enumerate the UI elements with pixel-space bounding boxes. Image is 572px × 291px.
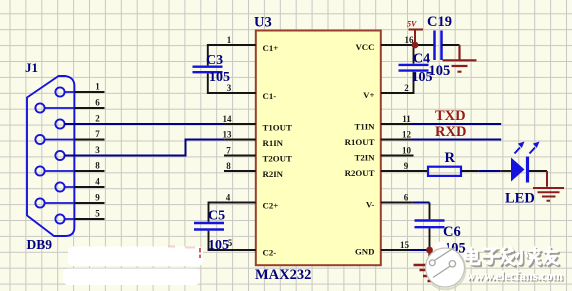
- svg-text:8: 8: [95, 161, 100, 171]
- ground near LED: [533, 171, 564, 201]
- pin 1 wire C1+: [208, 45, 256, 65]
- svg-text:12: 12: [402, 130, 412, 140]
- wire DB9 pin3 to U3 R1IN: [64, 140, 224, 156]
- svg-text:R2IN: R2IN: [263, 169, 284, 179]
- faint red remnants: [199, 248, 201, 258]
- svg-text:GND: GND: [355, 247, 375, 257]
- svg-text:LED: LED: [505, 191, 535, 207]
- pin 6 stub V-: [381, 202, 413, 204]
- svg-text:C6: C6: [443, 224, 461, 240]
- ground near C19: [443, 45, 477, 72]
- svg-text:T2IN: T2IN: [354, 153, 375, 163]
- ground earth-style near C6: [414, 250, 434, 281]
- svg-text:C5: C5: [208, 209, 225, 224]
- pin 2 wire V+: [381, 72, 414, 93]
- svg-text:C3: C3: [206, 53, 223, 68]
- svg-text:7: 7: [226, 146, 231, 156]
- pin 7 stub: [224, 155, 256, 157]
- svg-text:105: 105: [209, 70, 230, 85]
- svg-text:R: R: [445, 150, 456, 166]
- pin 3 wire C1-: [208, 73, 256, 93]
- pin 15 stub GND: [381, 249, 411, 251]
- pin 4 wire C2+: [209, 203, 256, 222]
- svg-text:6: 6: [404, 193, 409, 203]
- pin 14 stub: [225, 123, 256, 125]
- LED arrows: [515, 148, 536, 154]
- junction dot VCC node: [412, 42, 419, 49]
- wire DB9 pin2 to U3 T1OUT: [64, 123, 224, 125]
- svg-text:1: 1: [227, 35, 232, 45]
- connector J1 DB9 outline: [27, 76, 74, 236]
- svg-text:11: 11: [402, 114, 411, 124]
- pin 11 stub: [381, 123, 412, 125]
- J1 pin lines black: [74, 92, 104, 219]
- svg-text:DB9: DB9: [27, 237, 53, 252]
- pin 5 wire C2-: [209, 231, 256, 250]
- capacitor C5 plates: [194, 223, 224, 230]
- svg-text:9: 9: [404, 161, 409, 171]
- white erased patch 2: [63, 269, 200, 286]
- U3 left pin numbers: [223, 35, 233, 248]
- U3 right pin numbers: [400, 35, 414, 250]
- pin 10 stub: [381, 155, 414, 157]
- svg-text:T1OUT: T1OUT: [263, 123, 292, 133]
- svg-text:R1OUT: R1OUT: [345, 137, 375, 147]
- LED D1: [511, 142, 540, 183]
- svg-text:4: 4: [226, 193, 231, 203]
- node C4 top lead: [413, 45, 415, 64]
- svg-text:C1+: C1+: [263, 43, 279, 53]
- svg-text:5: 5: [95, 209, 100, 219]
- svg-text:105: 105: [429, 63, 451, 79]
- U3 pin names right: [345, 42, 375, 257]
- svg-text:T2OUT: T2OUT: [263, 154, 292, 164]
- svg-text:www.elecfans.com: www.elecfans.com: [466, 269, 564, 283]
- node C6 bottom lead: [429, 228, 431, 250]
- pin 13 stub: [225, 139, 256, 141]
- svg-text:C19: C19: [427, 14, 452, 30]
- wire RXD: [412, 138, 501, 140]
- capacitor C6 plates: [415, 221, 445, 228]
- svg-text:U3: U3: [254, 15, 272, 31]
- white erased patch 1: [68, 247, 203, 267]
- svg-text:9: 9: [95, 193, 100, 203]
- svg-text:C1-: C1-: [263, 91, 277, 101]
- svg-text:T1IN: T1IN: [354, 122, 375, 132]
- wire C19 to ground: [442, 44, 460, 46]
- pin 16 wire VCC: [381, 44, 434, 46]
- svg-text:R1IN: R1IN: [263, 138, 284, 148]
- U3 pin names left: [263, 43, 292, 258]
- watermark logo circle: [426, 242, 466, 290]
- svg-text:C2+: C2+: [263, 201, 279, 211]
- resistor R box: [428, 167, 461, 176]
- J1 pin stubs blue segments: [44, 92, 74, 219]
- svg-text:J1: J1: [25, 60, 38, 75]
- wire R to LED: [461, 170, 478, 172]
- svg-text:MAX232: MAX232: [255, 267, 311, 283]
- U3 left pin stubs and wires: [208, 45, 256, 250]
- svg-text:1: 1: [95, 82, 100, 92]
- capacitor C4 plates: [399, 65, 429, 71]
- svg-text:14: 14: [223, 114, 233, 124]
- svg-text:15: 15: [400, 240, 410, 250]
- J1 pin circles: [35, 87, 64, 223]
- svg-text:10: 10: [402, 146, 412, 156]
- svg-text:7: 7: [95, 129, 100, 139]
- J1 pin numbers: [95, 82, 100, 219]
- capacitor C3 plates: [193, 67, 223, 73]
- svg-text:6: 6: [95, 98, 100, 108]
- svg-text:V+: V+: [363, 90, 374, 100]
- svg-text:105: 105: [208, 238, 229, 253]
- svg-text:8: 8: [226, 161, 231, 171]
- node C6 top lead: [429, 203, 431, 220]
- svg-text:R2OUT: R2OUT: [345, 168, 375, 178]
- wire GND to C6: [411, 249, 430, 251]
- wire V- to C6: [413, 202, 430, 204]
- svg-text:C2-: C2-: [263, 248, 277, 258]
- junction dot C6 GND node: [426, 247, 433, 254]
- pin 9 wire to R: [381, 170, 428, 172]
- svg-text:TXD: TXD: [435, 108, 466, 124]
- capacitor C19 plates: [435, 31, 442, 61]
- power 5V symbol: [409, 30, 424, 46]
- svg-text:V-: V-: [366, 200, 375, 210]
- svg-text:RXD: RXD: [435, 124, 466, 140]
- U3 right pin stubs and wires: [381, 45, 434, 250]
- svg-text:VCC: VCC: [355, 42, 374, 52]
- svg-text:2: 2: [404, 83, 409, 93]
- svg-text:5V: 5V: [407, 20, 417, 29]
- svg-text:3: 3: [95, 145, 100, 155]
- op IC U3 MAX232 body: [256, 31, 381, 266]
- wire LED cathode to ground: [529, 170, 547, 172]
- svg-text:2: 2: [95, 114, 100, 124]
- pin 12 stub: [381, 139, 412, 141]
- pin 8 stub: [224, 170, 256, 172]
- svg-text:4: 4: [95, 177, 100, 187]
- svg-text:13: 13: [223, 130, 233, 140]
- wire TXD: [412, 123, 501, 125]
